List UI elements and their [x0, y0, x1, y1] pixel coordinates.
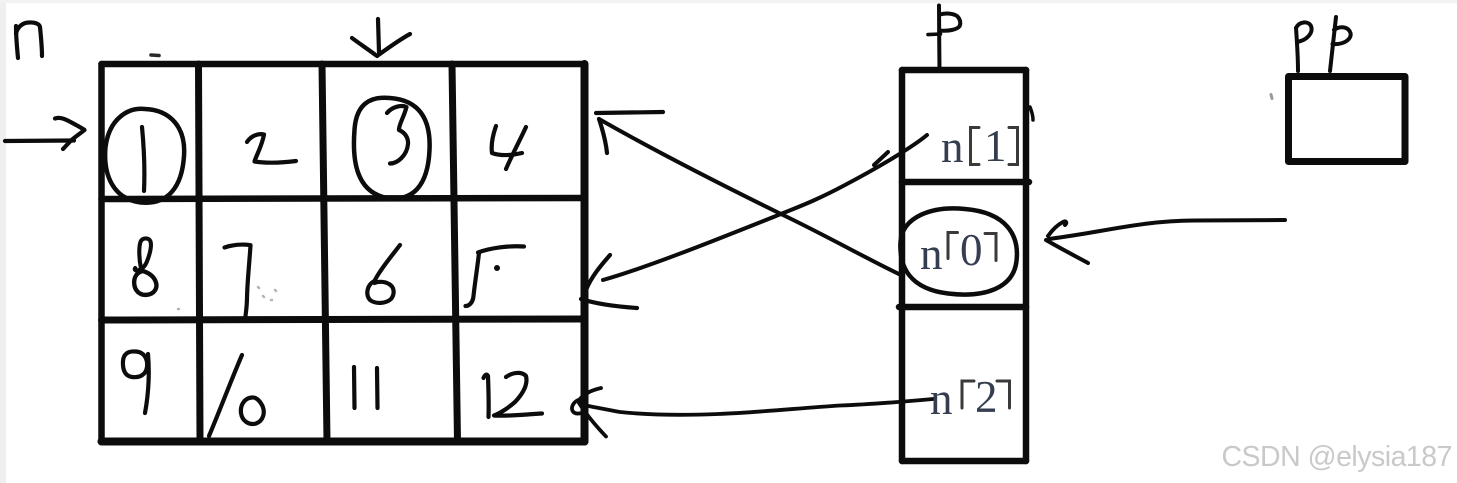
- gray speck left of rectangle: [1271, 95, 1272, 99]
- grid outer border: [102, 61, 585, 68]
- digit 10: [209, 355, 242, 436]
- gray specks near 7: [178, 287, 276, 309]
- svg-text:n: n: [930, 374, 953, 424]
- circle around 3: [354, 98, 430, 199]
- digit 11: [352, 367, 357, 408]
- arrow line B from n[1] to grid mid-right: [603, 135, 927, 280]
- array divider 2: [899, 304, 1026, 311]
- pp letters: [1296, 28, 1298, 71]
- grid row line 2: [102, 319, 585, 320]
- stray tick right of array: [1030, 107, 1033, 120]
- arrow line A from grid top-right to n[0]: [596, 112, 663, 113]
- grid row line 1: [102, 198, 585, 199]
- down arrow into column 3: [378, 19, 379, 52]
- svg-text:n: n: [941, 122, 964, 172]
- grid column line 1: [199, 64, 201, 442]
- digit 5: [478, 246, 524, 252]
- small dash above grid: [151, 53, 159, 57]
- digit 2: [247, 134, 296, 163]
- array divider 1: [902, 179, 1029, 186]
- digit 8: [135, 238, 151, 270]
- circle around 1: [105, 109, 184, 203]
- arrow from n[2] to cell 12: [583, 399, 933, 415]
- arrow into cell 1 (left arrow): [5, 138, 74, 143]
- svg-text:0: 0: [960, 225, 983, 275]
- array outer box: [902, 67, 1026, 74]
- label n (top-left handwritten): [16, 26, 18, 58]
- grid column line 2: [322, 64, 327, 442]
- text n[1]: [941, 121, 1007, 172]
- text n[0]: [920, 225, 983, 279]
- digit 6: [375, 245, 401, 281]
- digit 7: [225, 245, 251, 316]
- digit 4: [492, 126, 522, 155]
- text n[2]: [930, 372, 998, 424]
- arrow from right into n[0]: [1049, 220, 1285, 239]
- digit 1: [142, 127, 144, 191]
- svg-text:2: 2: [975, 372, 998, 422]
- circle around n[0]: [900, 208, 1017, 294]
- svg-text:1: 1: [984, 121, 1007, 171]
- grid column line 3: [452, 64, 458, 442]
- pp rectangle: [1289, 77, 1406, 162]
- svg-text:CSDN @elysia187: CSDN @elysia187: [1221, 441, 1452, 473]
- digit 12: [484, 375, 489, 417]
- svg-text:n: n: [920, 229, 943, 279]
- digit 3: [387, 106, 408, 163]
- p flag on top of array: [937, 6, 942, 70]
- digit 9: [123, 351, 147, 377]
